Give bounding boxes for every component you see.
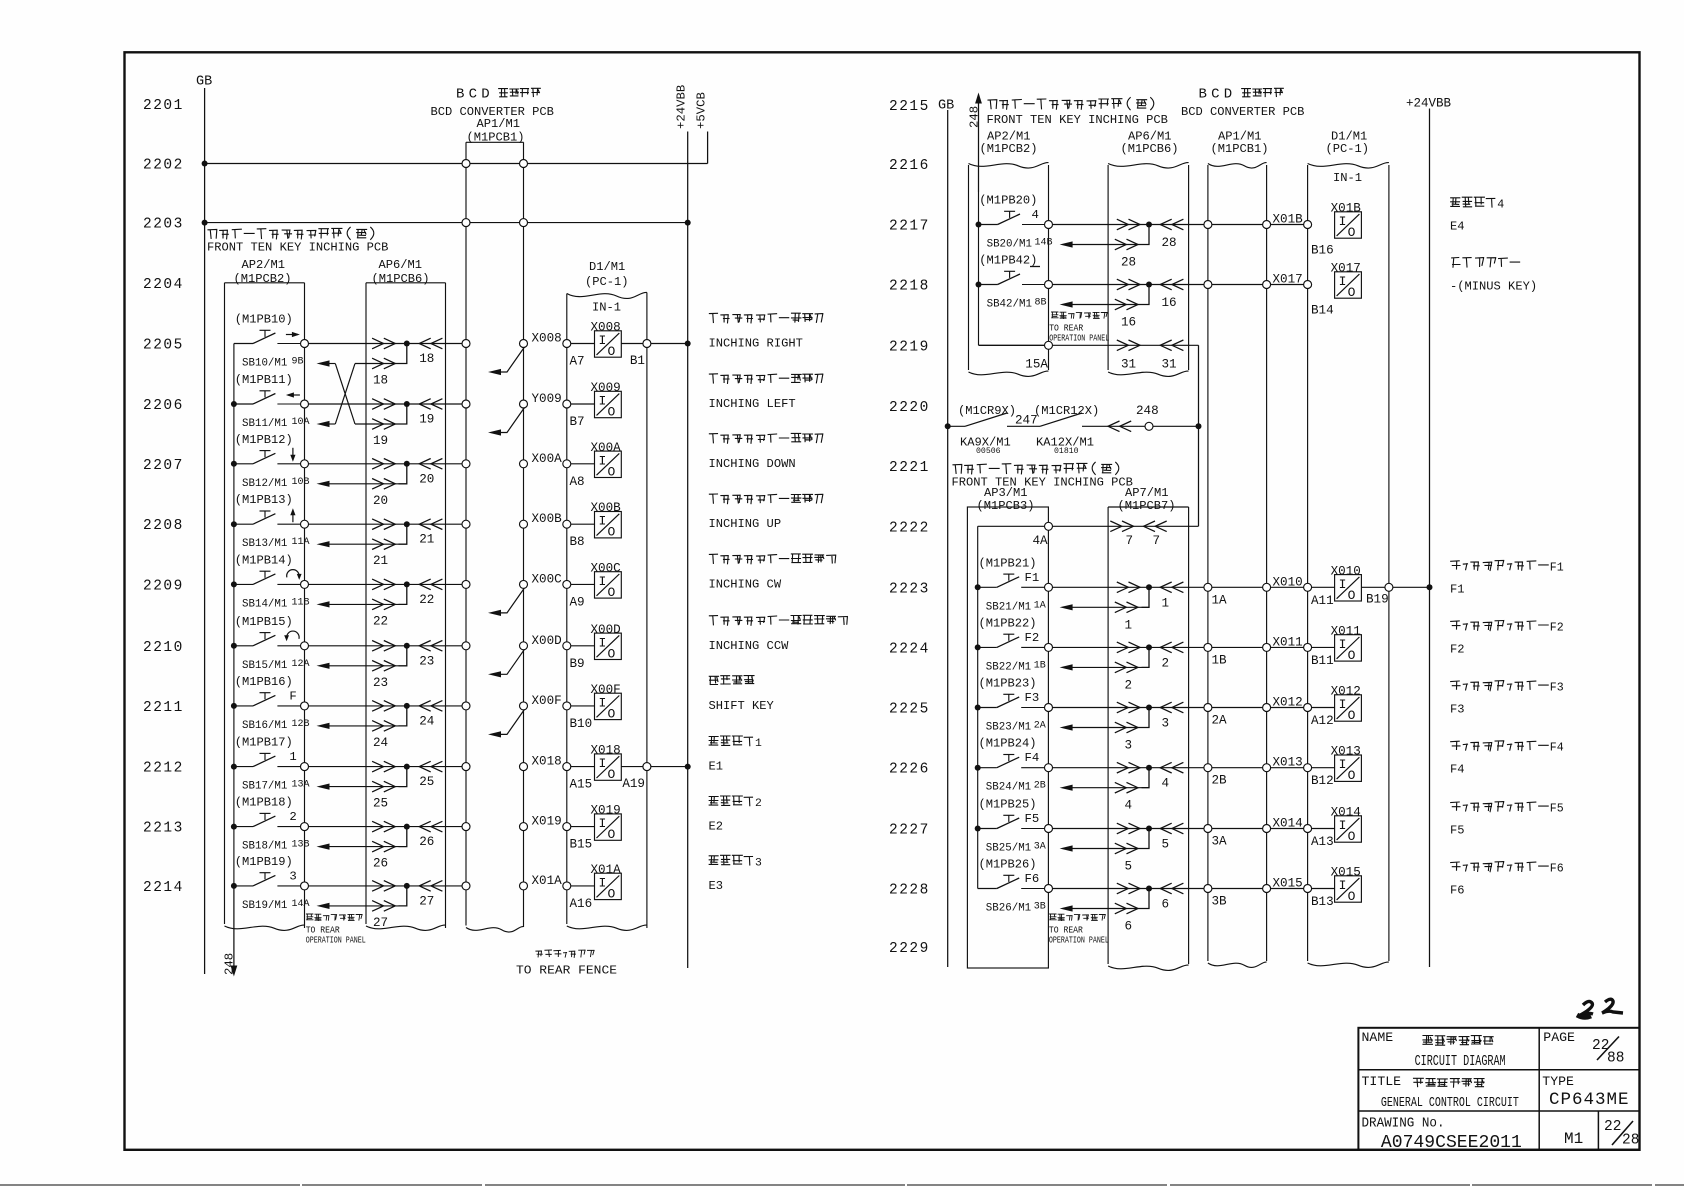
svg-text:24: 24: [419, 714, 434, 728]
svg-text:4: 4: [1125, 799, 1133, 813]
AP6/M1 connector box (left): [366, 282, 446, 284]
BCD pin circles row 2207: [462, 460, 470, 468]
svg-text:2215: 2215: [889, 99, 930, 115]
svg-text:O: O: [608, 344, 616, 359]
svg-text:1: 1: [1125, 618, 1133, 632]
svg-text:GB: GB: [938, 99, 954, 114]
svg-text:14B: 14B: [1035, 238, 1053, 249]
svg-text:2: 2: [1162, 656, 1170, 670]
svg-text:18: 18: [373, 374, 388, 388]
svg-text:28: 28: [1121, 256, 1136, 270]
return wire row 2210: [329, 665, 399, 667]
svg-text:SB13/M1: SB13/M1: [242, 538, 287, 550]
pin circle AP3 row 2226: [1045, 764, 1053, 772]
svg-text:X017: X017: [1273, 273, 1303, 287]
chevrons AP6 row 2213: [372, 821, 384, 832]
svg-text:(PC-1): (PC-1): [585, 275, 629, 289]
svg-text:SHIFT KEY: SHIFT KEY: [709, 699, 775, 713]
svg-text:X00F: X00F: [591, 683, 621, 697]
handwritten page number 22: [1578, 1001, 1593, 1016]
svg-text:B8: B8: [570, 535, 585, 549]
svg-text:A16: A16: [570, 897, 593, 911]
GB bus vertical wire (right): [947, 110, 949, 967]
svg-text:26: 26: [373, 857, 388, 871]
svg-text:F: F: [289, 689, 296, 703]
svg-text:2206: 2206: [143, 398, 184, 414]
pin circle AP2 row 2208: [301, 520, 309, 528]
svg-text:X008: X008: [532, 332, 562, 346]
svg-text:3B: 3B: [1212, 895, 1228, 909]
off-page arrow row 2205: [500, 347, 525, 372]
svg-text:9B: 9B: [292, 357, 304, 368]
AP1 pin circles row 2228: [1204, 885, 1212, 893]
to rear fence note: [536, 950, 594, 957]
svg-text:O: O: [1348, 225, 1356, 240]
svg-text:(M1PCB2): (M1PCB2): [980, 142, 1038, 156]
svg-text:31: 31: [1121, 357, 1136, 371]
relay contact KA12X: [1040, 413, 1082, 426]
return wire row 2224: [1072, 666, 1142, 668]
svg-text:INCHING LEFT: INCHING LEFT: [709, 397, 796, 411]
description row 2217: [1451, 197, 1495, 207]
svg-text:2202: 2202: [143, 158, 184, 174]
wire into I/O row 2213: [571, 826, 595, 828]
svg-text:I: I: [1339, 637, 1347, 652]
svg-text:I: I: [599, 875, 607, 890]
pushbutton SB20/M1 (M1PB20): [979, 224, 998, 226]
svg-text:A9: A9: [570, 595, 585, 609]
svg-text:25: 25: [419, 775, 434, 789]
svg-text:00506: 00506: [976, 447, 1001, 456]
junction GB row 2202: [202, 161, 208, 167]
svg-text:(M1PCB7): (M1PCB7): [1118, 499, 1176, 513]
I/O module X017 row 2218: [1335, 272, 1362, 298]
svg-text:2204: 2204: [143, 277, 184, 293]
svg-text:E3: E3: [709, 879, 724, 893]
pin circle AP2 row 2212: [301, 763, 309, 771]
svg-text:INCHING CW: INCHING CW: [709, 577, 782, 591]
description row 2212: [709, 736, 752, 746]
svg-text:(M1PB11): (M1PB11): [235, 373, 293, 387]
pin circle AP3 row 2228: [1045, 885, 1053, 893]
svg-text:2225: 2225: [889, 702, 930, 718]
svg-text:+24VBB: +24VBB: [675, 85, 689, 129]
svg-text:3B: 3B: [1034, 902, 1046, 913]
wire row 2225: [1053, 707, 1308, 709]
svg-text:O: O: [608, 886, 616, 901]
svg-text:B13: B13: [1311, 895, 1334, 909]
svg-text:SB17/M1: SB17/M1: [242, 781, 287, 793]
BCD pin circles row 2212: [462, 763, 470, 771]
junction AP6 row 2218: [1146, 282, 1152, 288]
svg-text:19: 19: [373, 434, 388, 448]
svg-text:2224: 2224: [889, 641, 930, 657]
hook to return row 2211: [399, 706, 407, 726]
svg-text:F6: F6: [1025, 872, 1040, 886]
I/O module X008 row 2205: [595, 331, 622, 357]
svg-text:A11: A11: [1311, 594, 1334, 608]
svg-text:OPERATION PANEL: OPERATION PANEL: [1049, 935, 1109, 946]
svg-text:2219: 2219: [889, 339, 930, 355]
svg-text:AP6/M1: AP6/M1: [379, 258, 423, 272]
svg-text:SB14/M1: SB14/M1: [242, 598, 287, 610]
svg-text:X00A: X00A: [532, 452, 563, 466]
svg-text:X01A: X01A: [532, 874, 563, 888]
junction AP6 row 2213: [404, 824, 410, 830]
svg-text:O: O: [1348, 889, 1356, 904]
svg-text:(M1PB21): (M1PB21): [979, 556, 1037, 570]
BCD pin circles row 2209: [462, 580, 470, 588]
svg-text:F4: F4: [1550, 742, 1564, 755]
return wire row 2205: [355, 363, 399, 365]
svg-text:O: O: [608, 585, 616, 600]
svg-text:X011: X011: [1331, 624, 1361, 638]
svg-text:22: 22: [373, 614, 388, 628]
svg-text:B1: B1: [630, 354, 645, 368]
svg-text:F1: F1: [1550, 561, 1564, 574]
front ten key inching PCB header (left): [208, 227, 374, 239]
pushbutton SB18/M1 (M1PB18): [234, 826, 253, 828]
svg-text:27: 27: [419, 894, 434, 908]
return wire row 2211: [329, 725, 399, 727]
I/O module X013 row 2226: [1335, 755, 1362, 781]
return wire row 2227: [1072, 848, 1142, 850]
svg-text:3: 3: [755, 857, 762, 869]
svg-text:(M1PB23): (M1PB23): [979, 677, 1037, 691]
pin circle AP2 row 2205: [301, 340, 309, 348]
D1 pin circle row 2223: [1304, 583, 1312, 591]
svg-text:2227: 2227: [889, 823, 930, 839]
svg-text:F4: F4: [1450, 763, 1465, 777]
junction AP6 row 2217: [1146, 222, 1152, 228]
svg-text:X017: X017: [1331, 262, 1361, 276]
svg-text:2208: 2208: [143, 518, 184, 534]
svg-text:+5VCB: +5VCB: [695, 92, 709, 129]
I/O module X009 row 2206: [595, 391, 622, 417]
svg-text:AP3/M1: AP3/M1: [984, 486, 1028, 500]
svg-text:GB: GB: [196, 75, 212, 90]
svg-text:1B: 1B: [1212, 653, 1228, 667]
I/O module X00C row 2209: [595, 572, 622, 598]
+24VBB bus (right): [1429, 109, 1431, 968]
junction common row 2211: [231, 703, 237, 709]
I/O module X00B row 2208: [595, 512, 622, 538]
svg-text:23: 23: [373, 676, 388, 690]
AP1 pin circles row 2223: [1204, 583, 1212, 591]
svg-text:X00B: X00B: [532, 512, 563, 526]
to rear operation panel note (left): [306, 914, 362, 921]
pin circle D1 row 2212: [563, 763, 571, 771]
svg-text:F1: F1: [1450, 582, 1465, 596]
svg-text:TO REAR FENCE: TO REAR FENCE: [516, 964, 617, 978]
svg-text:I: I: [599, 695, 607, 710]
svg-text:O: O: [1348, 708, 1356, 723]
svg-text:TYPE: TYPE: [1542, 1074, 1574, 1089]
pin circle AP3 row 2223: [1045, 583, 1053, 591]
AP1 pin circles row 2224: [1204, 643, 1212, 651]
pin circle D1 row 2209: [563, 580, 571, 588]
svg-text:3A: 3A: [1212, 835, 1228, 849]
svg-text:1A: 1A: [1212, 593, 1228, 607]
svg-text:BCD: BCD: [1199, 87, 1237, 103]
chevrons AP6 row 2208: [372, 519, 384, 530]
svg-text:X01B: X01B: [1273, 213, 1304, 227]
junction AP7 row 2228: [1146, 886, 1152, 892]
svg-text:(M1CR9X): (M1CR9X): [958, 404, 1016, 418]
description row 2205: [709, 313, 822, 323]
I/O module X01A row 2214: [595, 873, 622, 899]
svg-text:(M1CR12X): (M1CR12X): [1034, 404, 1099, 418]
svg-text:INCHING UP: INCHING UP: [709, 517, 782, 531]
switch common bus (left): [233, 344, 235, 886]
svg-text:X015: X015: [1273, 877, 1303, 891]
description row 2227: [1451, 802, 1549, 812]
svg-text:19: 19: [419, 413, 434, 427]
I/O module X018 row 2212: [595, 754, 622, 780]
svg-text:D1/M1: D1/M1: [589, 260, 625, 274]
svg-text:16: 16: [1162, 296, 1177, 310]
svg-text:31: 31: [1162, 357, 1177, 371]
junction common row 2209: [231, 581, 237, 587]
svg-text:2210: 2210: [143, 640, 184, 656]
svg-text:CP643ME: CP643ME: [1549, 1090, 1630, 1110]
hook to return row 2213: [399, 827, 407, 847]
svg-text:E4: E4: [1450, 220, 1465, 234]
junction AP6 row 2210: [404, 643, 410, 649]
svg-text:F5: F5: [1450, 824, 1465, 838]
junction common row 2212: [231, 764, 237, 770]
AP1 pin circles row 2217: [1204, 221, 1212, 229]
return wire row 2226: [1072, 787, 1142, 789]
switch common bus (right top): [978, 192, 980, 345]
svg-text:F5: F5: [1550, 803, 1564, 816]
svg-text:F3: F3: [1450, 703, 1465, 717]
svg-text:OPERATION PANEL: OPERATION PANEL: [306, 935, 366, 946]
svg-text:2: 2: [1125, 678, 1133, 692]
wire row 2218: [1053, 284, 1308, 286]
svg-text:(M1PB15): (M1PB15): [235, 615, 293, 629]
svg-text:O: O: [608, 464, 616, 479]
svg-text:X014: X014: [1273, 817, 1303, 831]
svg-text:SB26/M1: SB26/M1: [986, 903, 1031, 915]
return chevrons row 2208: [372, 539, 384, 550]
svg-text:X01B: X01B: [1331, 202, 1362, 216]
svg-text:O: O: [608, 706, 616, 721]
pin circle D1 row 2207: [563, 460, 571, 468]
wire row 2226: [1053, 767, 1308, 769]
+24VBB label (left, rotated): [675, 85, 689, 129]
svg-text:10A: 10A: [292, 417, 310, 428]
svg-text:2229: 2229: [889, 941, 930, 957]
svg-text:X00C: X00C: [532, 572, 563, 586]
wire into I/O row 2209: [571, 583, 595, 585]
svg-text:O: O: [1348, 829, 1356, 844]
wire into I/O row 2228: [1312, 888, 1335, 890]
chevrons AP6 row 2214: [372, 881, 384, 892]
svg-text:10B: 10B: [292, 477, 310, 488]
svg-text:248: 248: [1136, 404, 1159, 418]
svg-text:2218: 2218: [889, 279, 930, 295]
svg-text:A13: A13: [1311, 835, 1334, 849]
pushbutton SB19/M1 (M1PB19): [234, 885, 253, 887]
pin circle D1 row 2210: [563, 642, 571, 650]
svg-text:2221: 2221: [889, 460, 930, 476]
description row 2206: [709, 374, 822, 384]
junction common row 2213: [231, 824, 237, 830]
chevrons AP6 row 2210: [372, 641, 384, 652]
svg-text:2212: 2212: [143, 761, 184, 777]
chevrons AP6 row 2218: [1117, 279, 1129, 290]
svg-text:13B: 13B: [292, 840, 310, 851]
pushbutton SB22/M1 (M1PB22): [978, 646, 997, 648]
headers right half top: [988, 98, 1154, 110]
svg-text:SB15/M1: SB15/M1: [242, 660, 287, 672]
AP2/M1 key box (right top): [969, 163, 1049, 168]
svg-text:(M1PCB3): (M1PCB3): [977, 499, 1035, 513]
wire row 2224: [1053, 646, 1308, 648]
svg-text:11A: 11A: [292, 537, 310, 548]
svg-text:O: O: [608, 525, 616, 540]
return wire row 2212: [329, 786, 399, 788]
junction AP6 row 2212: [404, 764, 410, 770]
svg-text:18: 18: [419, 352, 434, 366]
svg-text:(M1PB16): (M1PB16): [235, 675, 293, 689]
row 2219 wire: [979, 344, 1049, 346]
svg-text:B10: B10: [570, 717, 593, 731]
svg-text:B12: B12: [1311, 774, 1334, 788]
pushbutton SB15/M1 (M1PB15): [234, 645, 253, 647]
return wire row 2208: [329, 543, 399, 545]
svg-text:22: 22: [419, 593, 434, 607]
chevrons AP6 row 2212: [372, 761, 384, 772]
svg-text:2220: 2220: [889, 400, 930, 416]
I/O module X015 row 2228: [1335, 876, 1362, 902]
wire row 2227: [1053, 828, 1308, 830]
return chevrons row 2211: [372, 721, 384, 732]
description row 2214: [709, 855, 752, 865]
svg-text:B15: B15: [570, 838, 593, 852]
pushbutton SB12/M1 (M1PB12): [234, 463, 253, 465]
chevrons AP6 row 2205: [372, 338, 384, 349]
AP6/M1 connector box (right top): [1108, 163, 1189, 168]
svg-text:B9: B9: [570, 657, 585, 671]
D1 pin circle row 2225: [1304, 704, 1312, 712]
svg-text:X010: X010: [1273, 575, 1303, 589]
svg-text:X012: X012: [1273, 696, 1303, 710]
junction +24VBB row 2203: [685, 220, 691, 226]
svg-text:SB18/M1: SB18/M1: [242, 841, 287, 853]
return wire row 2217: [1072, 244, 1142, 246]
wire row 2207 AP2 to BCD: [309, 463, 466, 465]
pin circle D1 row 2206: [563, 400, 571, 408]
wire I/O to +24VBB bus row 2212: [621, 766, 687, 768]
return chevrons row 2209: [372, 599, 384, 610]
svg-text:X013: X013: [1273, 756, 1303, 770]
hook to return row 2208: [399, 524, 407, 544]
pin circle AP3 row 2227: [1045, 825, 1053, 833]
wire into I/O row 2207: [571, 463, 595, 465]
svg-text:I: I: [599, 514, 607, 529]
svg-text:O: O: [1348, 588, 1356, 603]
wire row 2210 AP2 to BCD: [309, 645, 466, 647]
I/O module X010 row 2223: [1335, 575, 1362, 601]
AP1 pin circles row 2225: [1204, 704, 1212, 712]
return wire row 2223: [1072, 606, 1142, 608]
svg-text:O: O: [1348, 648, 1356, 663]
pin circle AP2 row 2214: [301, 882, 309, 890]
svg-text:1: 1: [289, 750, 296, 764]
off-page arrow row 2210: [500, 649, 525, 674]
svg-text:1A: 1A: [1034, 600, 1046, 611]
D1 pin circle row 2228: [1304, 885, 1312, 893]
svg-text:O: O: [608, 767, 616, 782]
chevrons AP7 row 2227: [1117, 823, 1129, 834]
svg-text:I: I: [599, 453, 607, 468]
svg-text:INCHING CCW: INCHING CCW: [709, 639, 790, 653]
svg-text:DRAWING No.: DRAWING No.: [1362, 1117, 1445, 1132]
pushbutton SB26/M1 (M1PB26): [978, 888, 997, 890]
wire row 2213 AP2 to BCD: [309, 826, 466, 828]
svg-text:(M1PB20): (M1PB20): [979, 194, 1037, 208]
svg-text:(M1PCB6): (M1PCB6): [1121, 142, 1179, 156]
svg-text:X011: X011: [1273, 635, 1303, 649]
svg-text:2: 2: [755, 798, 762, 810]
svg-text:7: 7: [1126, 534, 1134, 548]
wire row 2217: [1053, 224, 1308, 226]
svg-text:AP2/M1: AP2/M1: [242, 258, 286, 272]
svg-text:SB16/M1: SB16/M1: [242, 720, 287, 732]
off-page arrow row 2209: [500, 588, 525, 613]
pin circle D1 row 2211: [563, 702, 571, 710]
wire row 2228: [1053, 888, 1308, 890]
junction AP6 row 2214: [404, 883, 410, 889]
svg-text:(M1PB26): (M1PB26): [979, 858, 1037, 872]
svg-text:X013: X013: [1331, 745, 1361, 759]
svg-text:3: 3: [289, 869, 296, 883]
svg-text:I: I: [599, 574, 607, 589]
AP1/M1 BCD box (right): [1208, 163, 1267, 168]
svg-text:X00F: X00F: [532, 694, 562, 708]
BCD pin circles row 2208: [462, 520, 470, 528]
svg-text:1: 1: [1162, 596, 1170, 610]
svg-text:2203: 2203: [143, 217, 184, 233]
AP7/M1 connector box (right lower): [1108, 506, 1189, 508]
svg-text:TITLE: TITLE: [1362, 1074, 1402, 1089]
svg-text:7: 7: [1153, 534, 1161, 548]
svg-text:X01A: X01A: [591, 863, 622, 877]
hook to return row 2209: [399, 584, 407, 604]
svg-text:A0749CSEE2011: A0749CSEE2011: [1381, 1133, 1522, 1153]
svg-text:X00D: X00D: [591, 623, 621, 637]
svg-text:(M1PCB6): (M1PCB6): [372, 272, 430, 286]
pin circle AP3 row 2224: [1045, 643, 1053, 651]
chevrons AP7 row 2228: [1117, 883, 1129, 894]
description row 2207: [709, 433, 822, 443]
net 248 down arrow (left bottom): [233, 886, 235, 966]
return wire row 2228: [1072, 908, 1142, 910]
svg-text:16: 16: [1121, 316, 1136, 330]
svg-text:6: 6: [1125, 920, 1133, 934]
svg-text:X015: X015: [1331, 866, 1361, 880]
svg-text:FRONT TEN KEY INCHING PCB: FRONT TEN KEY INCHING PCB: [987, 113, 1168, 127]
svg-text:14A: 14A: [292, 899, 310, 910]
description row 2213: [709, 796, 752, 806]
svg-text:SB20/M1: SB20/M1: [987, 239, 1032, 251]
junction AP7 row 2225: [1146, 705, 1152, 711]
svg-text:A15: A15: [570, 778, 593, 792]
off-page arrow row 2206: [500, 408, 525, 433]
return wire row 2225: [1072, 727, 1142, 729]
